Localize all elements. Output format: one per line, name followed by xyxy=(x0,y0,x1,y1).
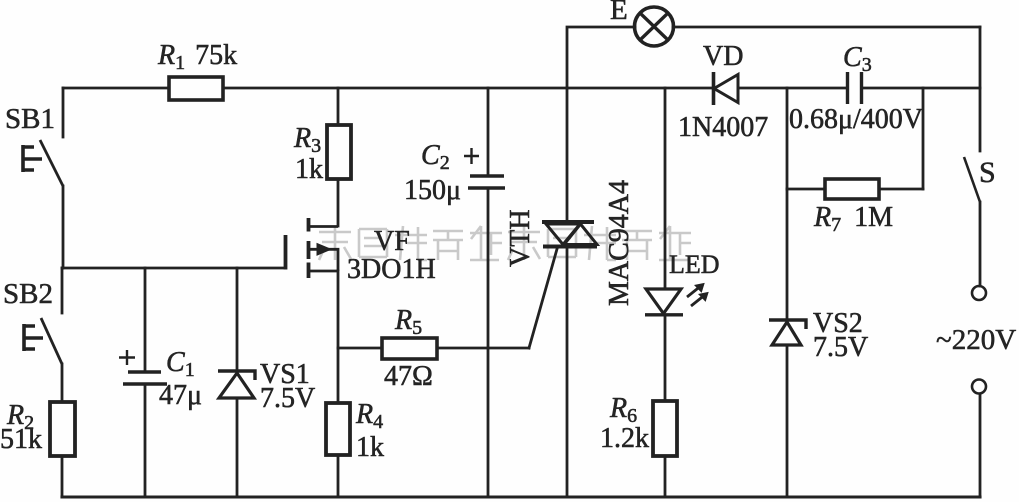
wire SB2 to R2 xyxy=(61,364,64,402)
wire lower terminal to bottom bus xyxy=(979,394,982,497)
wire right column top (to switch S) xyxy=(979,27,982,151)
diode VD xyxy=(714,72,739,105)
wire lamp branch right horizontal xyxy=(673,26,980,29)
wire VS1 top lead xyxy=(236,268,239,371)
wire VS2 to bottom bus xyxy=(786,345,789,497)
wire SB1 column upper xyxy=(62,88,65,137)
svg-text:SB2: SB2 xyxy=(3,278,53,310)
svg-text:1k: 1k xyxy=(295,154,323,185)
svg-text:LED: LED xyxy=(669,250,720,279)
svg-text:0.68μ/400V: 0.68μ/400V xyxy=(789,104,923,135)
wire triac bottom lead xyxy=(566,247,569,497)
resistor R5 xyxy=(382,338,437,359)
wire R4 to bottom bus xyxy=(337,455,340,497)
wire C1 top lead xyxy=(144,268,147,372)
pushbutton SB1 xyxy=(23,140,63,186)
wire SB2 column upper xyxy=(61,268,64,313)
resistor R2 xyxy=(50,402,75,456)
zener VS2 xyxy=(769,320,806,345)
svg-text:51k: 51k xyxy=(0,424,42,455)
svg-text:3DO1H: 3DO1H xyxy=(347,254,436,285)
capacitor C1 plus sign xyxy=(119,350,135,365)
svg-text:VD: VD xyxy=(703,41,743,72)
capacitor C2 plus sign xyxy=(464,148,479,164)
svg-text:MAC94A4: MAC94A4 xyxy=(604,180,635,306)
pushbutton SB2 xyxy=(24,318,62,364)
wire C2 top lead xyxy=(487,88,490,176)
wire R7 right lead xyxy=(879,188,923,191)
wire R5 right lead to triac gate bend xyxy=(437,347,529,350)
svg-text:47Ω: 47Ω xyxy=(384,361,433,392)
wire SB1 column lower xyxy=(62,186,65,268)
svg-text:1k: 1k xyxy=(356,432,384,463)
svg-text:7.5V: 7.5V xyxy=(813,332,868,363)
wire top bus segment R1 to VD xyxy=(223,87,713,90)
wire triac top lead xyxy=(566,88,569,222)
wire MOSFET source to R5 node and R4 xyxy=(337,271,340,403)
terminal upper xyxy=(972,286,986,300)
terminal lower xyxy=(972,380,986,394)
wire R7 right riser xyxy=(922,88,925,189)
wire LED to R6 xyxy=(664,315,667,401)
resistor R1 xyxy=(169,77,223,100)
resistor R6 xyxy=(653,401,677,456)
wire R5 left lead xyxy=(338,347,382,350)
resistor R4 xyxy=(326,403,350,455)
watermark text xyxy=(319,226,691,260)
resistor R3 xyxy=(327,125,351,179)
svg-text:VTH: VTH xyxy=(505,209,536,267)
svg-text:S: S xyxy=(979,156,996,189)
wire bottom bus xyxy=(62,495,980,498)
svg-text:VF: VF xyxy=(374,226,410,257)
svg-text:7.5V: 7.5V xyxy=(260,383,315,414)
wire top bus segment VD to C3 xyxy=(738,87,846,90)
svg-text:1.2k: 1.2k xyxy=(600,423,649,454)
svg-text:150μ: 150μ xyxy=(404,175,461,206)
lamp E xyxy=(635,7,674,46)
wire R6 to bottom bus xyxy=(664,456,667,497)
wire top bus left segment (SB1 top to R1) xyxy=(63,87,169,90)
svg-text:SB1: SB1 xyxy=(5,103,55,135)
wire VS2 branch upper (bus to R7 node) xyxy=(786,88,789,189)
wire LED branch top lead xyxy=(664,88,667,289)
wire top bus segment C3 to right corner xyxy=(863,87,980,90)
svg-text:R7 1M: R7 1M xyxy=(813,202,893,236)
triac VTH xyxy=(542,222,597,247)
wire R3 top lead xyxy=(337,88,340,125)
capacitor C1 xyxy=(123,372,167,384)
wire triac gate diagonal xyxy=(529,249,557,348)
LED D xyxy=(645,284,708,315)
wire switch S to upper terminal xyxy=(979,202,982,286)
wire VS1 bottom lead xyxy=(236,398,239,497)
capacitor C3 xyxy=(848,72,862,104)
svg-text:E: E xyxy=(610,0,628,26)
wire R3 to MOSFET drain xyxy=(337,179,340,226)
wire mid-left node bus xyxy=(62,267,285,270)
zener VS1 xyxy=(218,371,255,398)
wire R2 to bottom bus xyxy=(61,456,64,497)
wire lamp branch left vertical xyxy=(567,27,635,88)
wire C2 bottom lead xyxy=(487,188,490,497)
transistor VF (MOSFET) xyxy=(286,218,339,278)
svg-text:~220V: ~220V xyxy=(936,324,1016,356)
svg-text:47μ: 47μ xyxy=(159,380,202,411)
capacitor C2 xyxy=(468,176,505,188)
svg-text:R1 75k: R1 75k xyxy=(157,40,237,74)
wire C1 bottom lead xyxy=(144,384,147,497)
wire VS2 branch mid xyxy=(786,189,789,320)
resistor R7 xyxy=(825,179,879,199)
wire R7 left lead xyxy=(787,188,825,191)
switch S xyxy=(964,157,980,202)
svg-text:1N4007: 1N4007 xyxy=(678,112,768,143)
